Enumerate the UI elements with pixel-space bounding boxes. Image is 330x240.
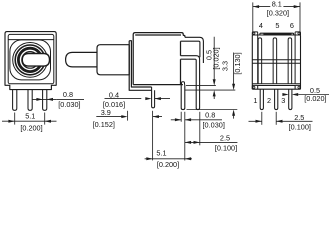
dim 2.5 rear ext line 2	[275, 112, 277, 125]
dim 2.5 mid right ext (pin B right edge)	[199, 112, 201, 146]
svg-text:[0.152]: [0.152]	[93, 120, 115, 129]
svg-text:3: 3	[281, 96, 285, 105]
rear side wall right	[294, 35, 296, 84]
svg-text:5.1: 5.1	[156, 148, 166, 157]
dim 0.8 front leader line	[32, 98, 56, 100]
svg-text:5: 5	[275, 21, 279, 30]
front view frame outline	[5, 32, 56, 90]
dim 5.1 front dim line	[2, 120, 57, 122]
dim 8.1 ext line right	[299, 2, 301, 31]
front bushing ring 3	[15, 45, 45, 75]
dim 0.4 arrow left at peg right	[155, 97, 161, 100]
side front pin A	[181, 85, 185, 110]
dim peg ext line (3.9/5.1)	[152, 111, 154, 161]
svg-text:0.8: 0.8	[205, 111, 215, 120]
rear bottom post left	[252, 85, 257, 89]
side body outline	[133, 33, 185, 85]
side front pin A shoulder	[182, 82, 185, 85]
svg-text:[0.200]: [0.200]	[157, 160, 179, 169]
rear side wall left	[257, 35, 259, 84]
side rear mid pin tip	[196, 108, 199, 110]
dim 5.1 mid arrow right	[146, 157, 152, 160]
rear top post left	[252, 32, 257, 35]
svg-text:[0.100]: [0.100]	[215, 144, 237, 153]
dim 2.5 mid arrow left outward	[185, 141, 191, 144]
svg-text:1: 1	[253, 96, 257, 105]
dim 3.9 arrow left at peg ext	[153, 115, 159, 118]
svg-text:[0.020]: [0.020]	[304, 94, 326, 103]
front pin 3	[43, 90, 47, 111]
rear top plate thick band	[263, 33, 291, 35]
svg-text:[0.320]: [0.320]	[267, 8, 289, 17]
svg-text:5.1: 5.1	[25, 112, 35, 121]
dim 0.8 mid dim+leader	[171, 119, 222, 121]
dim 8.1 arrow left	[253, 5, 259, 8]
dim 3.3 side vertical line B	[233, 53, 235, 119]
side bushing	[97, 45, 129, 75]
rear bottom post left notch	[253, 86, 255, 88]
dim 0.5 side vertical line A	[213, 37, 215, 99]
side rear mid pin bend	[181, 56, 200, 108]
front lever capsule	[22, 54, 49, 67]
front pin 1	[13, 90, 17, 111]
dim 0.5 side arrow down	[213, 79, 216, 85]
svg-text:3.9: 3.9	[101, 108, 111, 117]
dim 5.1 front ext line right	[44, 113, 46, 125]
rear pin5 slot	[273, 38, 277, 84]
dim 3.3 side arrow up	[232, 110, 235, 116]
side ext: pins bottom to right	[187, 109, 238, 111]
rear pin6 slot	[288, 38, 292, 84]
side frame peg	[152, 87, 155, 108]
svg-text:0.8: 0.8	[63, 90, 73, 99]
dim 3.9 arrow right at ext	[121, 115, 127, 118]
dim 2.5 rear ext line 1	[261, 112, 263, 125]
dim 5.1 front arrow pointing left at right ext	[45, 120, 51, 123]
side ext: body bottom to right	[186, 85, 216, 87]
svg-text:[0.100]: [0.100]	[289, 123, 311, 132]
dim 0.5 side arrow up	[213, 90, 216, 96]
dim 0.8 mid arrow right	[175, 118, 181, 121]
svg-text:2.5: 2.5	[220, 133, 230, 142]
svg-text:0.4: 0.4	[109, 91, 119, 100]
rear horizontal double line upper	[252, 60, 300, 64]
dim 5.1 front arrow pointing right at left ext	[8, 120, 14, 123]
rear pin4 slot	[258, 38, 262, 84]
svg-text:6: 6	[290, 21, 294, 30]
dim 5.1 mid dim line	[145, 158, 192, 160]
front bushing ring thick	[18, 48, 41, 71]
rear bottom pin 3	[289, 89, 292, 109]
side rear top pin	[181, 37, 204, 63]
dim 2.5 mid arrow right outward	[194, 141, 200, 144]
dim 2.5 rear arrow right at ext1	[256, 120, 262, 123]
dim 3.9 ext line at bushing face	[127, 111, 129, 121]
dim 8.1 dim line	[253, 6, 300, 8]
rear bottom pin 1	[260, 89, 263, 109]
side lever	[66, 52, 98, 67]
dim 0.5 rear arrow right at pin3 left	[282, 93, 288, 96]
dim 0.4 arrow right at peg left	[145, 97, 151, 100]
front bushing hole	[22, 52, 39, 69]
dim 2.5 rear arrow left at ext2	[276, 120, 282, 123]
dim 5.1 front ext line left	[14, 113, 16, 125]
svg-text:[0.200]: [0.200]	[20, 123, 42, 132]
rear bottom post right	[295, 85, 300, 89]
dim 2.5 mid dim line	[185, 141, 238, 143]
rear bottom pin 2	[275, 89, 278, 109]
front frame cutout rounded square	[10, 40, 51, 80]
front plate top line	[8, 39, 53, 41]
svg-text:3.3: 3.3	[220, 61, 229, 71]
rear case outline	[252, 35, 300, 89]
dim 5.1 mid arrow left	[185, 157, 191, 160]
rear top plate	[260, 33, 294, 35]
front view inner outline	[8, 34, 54, 83]
svg-text:8.1: 8.1	[272, 0, 282, 8]
svg-text:[0.020]: [0.020]	[212, 47, 221, 69]
svg-text:[0.130]: [0.130]	[233, 52, 242, 74]
svg-text:2: 2	[267, 96, 271, 105]
dim 3.9 dim line	[96, 116, 162, 118]
dim 0.8 front arrow right-pointing at pin3 left	[36, 98, 42, 101]
dim 3.3 side arrow down	[232, 84, 235, 90]
svg-text:2.5: 2.5	[294, 113, 304, 122]
rear horizontal line lower	[252, 83, 300, 85]
dim 0.4 leader	[105, 98, 171, 100]
dim 0.8 front fraction bar	[56, 98, 84, 100]
rear bottom post right notch	[298, 86, 300, 88]
rear top post right	[295, 32, 300, 35]
dim 8.1 arrow right	[294, 5, 300, 8]
dim 0.8 mid ext lines (pin A edges)	[181, 112, 185, 161]
svg-text:[0.030]: [0.030]	[58, 100, 80, 109]
dim 0.8 front arrow left-pointing at pin3 right	[47, 98, 53, 101]
front pin 2	[28, 90, 32, 111]
front bushing ring 2	[13, 43, 48, 78]
side frame plate	[129, 41, 151, 91]
dim 8.1 ext line left	[252, 2, 254, 31]
rear bottom band line	[258, 85, 295, 87]
svg-text:4: 4	[259, 21, 263, 30]
rear top post left notch	[253, 32, 255, 34]
dim 0.5 rear leader	[298, 94, 329, 96]
svg-text:[0.030]: [0.030]	[203, 120, 225, 129]
side ext: foot bottom to right	[185, 89, 235, 91]
dim 0.8 mid arrow left	[185, 118, 191, 121]
dim 2.5 rear dim line	[249, 120, 313, 122]
dim 0.5 rear arrow left at pin3 right	[292, 93, 298, 96]
rear top post right notch	[298, 32, 300, 34]
